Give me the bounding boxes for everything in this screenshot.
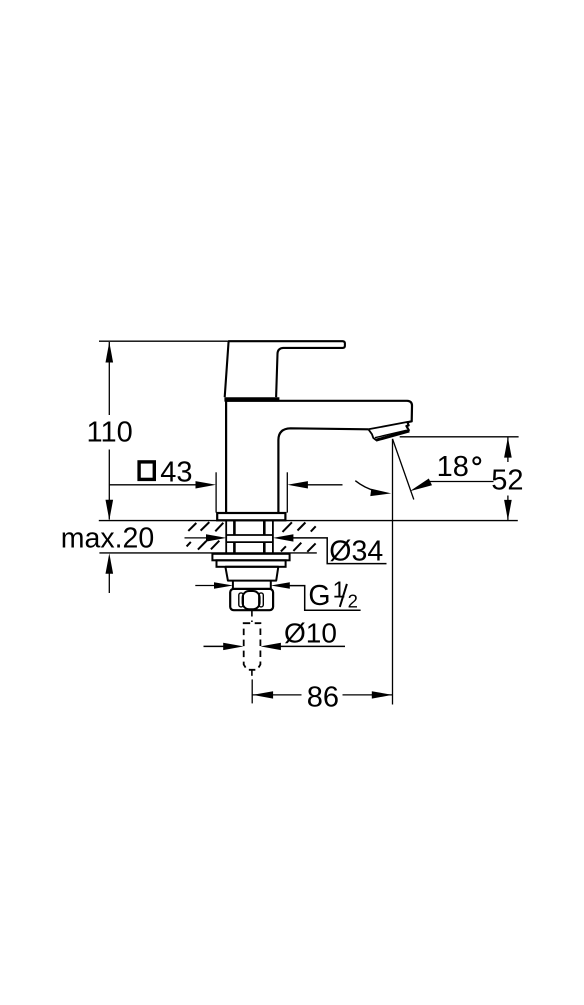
dim 86 right arrow xyxy=(372,691,393,698)
aerator left edge xyxy=(368,429,376,440)
shank through counter left edge xyxy=(225,521,227,553)
shank inner line bottom right xyxy=(263,542,266,553)
dim 52 line upper segment xyxy=(507,438,509,463)
dim 43 right extension line xyxy=(286,472,288,512)
svg-text:1: 1 xyxy=(333,577,346,603)
max.20 arrow shaft xyxy=(108,565,110,593)
dim Ø34 left arrow xyxy=(206,534,226,541)
dim 43 right arrow xyxy=(287,481,308,488)
counter top line xyxy=(99,520,518,522)
aerator bottom thick line xyxy=(376,431,409,440)
washer plate A xyxy=(212,554,289,561)
max.20 arrow up below counter xyxy=(106,553,114,574)
dim 52 arrow up xyxy=(504,437,512,457)
spout height extension line xyxy=(400,436,519,438)
shank through counter right edge xyxy=(272,521,274,553)
dim 43 left extension line xyxy=(215,472,217,512)
shank band upper line xyxy=(226,534,273,536)
dim 43 right line xyxy=(305,484,343,486)
hex nut center facet xyxy=(243,591,260,609)
hex nut outline xyxy=(230,589,273,610)
square symbol for 43 xyxy=(139,462,154,480)
dim 110 arrow up xyxy=(106,342,114,363)
aerator inner line xyxy=(375,430,407,438)
G 1/2 left arrow xyxy=(214,582,233,589)
shank below cone left edge xyxy=(232,581,234,589)
dim 18 leader line xyxy=(428,481,494,483)
dim Ø10 left line xyxy=(204,645,227,647)
dim Ø10 right line xyxy=(278,645,345,647)
svg-text:Ø34: Ø34 xyxy=(329,535,383,567)
dim 110 arrow down xyxy=(106,500,114,521)
svg-text:18: 18 xyxy=(437,451,469,483)
dim 110 line lower segment xyxy=(108,450,110,520)
dim Ø34 leader line xyxy=(291,538,387,564)
dim Ø10 left arrow xyxy=(223,643,243,650)
G 1/2 right arrow xyxy=(271,582,290,589)
dim Ø34 left line xyxy=(185,537,210,539)
aerator top slanted line xyxy=(368,422,407,429)
shank below cone right edge xyxy=(270,581,272,589)
shank band lower line xyxy=(226,541,273,543)
dim 52 arrow down xyxy=(504,500,512,520)
svg-text:86: 86 xyxy=(307,682,339,714)
dim 43 left line xyxy=(109,484,198,486)
dim 86 left arrow xyxy=(253,691,274,698)
svg-text:52: 52 xyxy=(491,465,523,497)
counter hatch left block xyxy=(187,522,224,550)
lever body outline xyxy=(225,341,345,397)
G 1/2 leader line xyxy=(288,586,361,611)
svg-text:Ø10: Ø10 xyxy=(284,617,337,648)
cone washer xyxy=(225,567,278,581)
dim Ø34 right arrow xyxy=(273,534,293,541)
hex nut left facet strip xyxy=(239,593,244,607)
base plinth xyxy=(217,513,285,520)
dim Ø10 right arrow xyxy=(261,643,281,650)
dashed hose outline xyxy=(244,623,261,670)
G 1/2 left arrow line xyxy=(195,585,216,587)
lever base thick bar xyxy=(224,397,279,401)
shank inner line top right xyxy=(263,521,266,535)
washer plate B xyxy=(217,560,286,567)
fraction slash xyxy=(340,584,347,607)
dim 86 line right segment xyxy=(343,694,393,696)
dim 86 left extension tick xyxy=(251,679,253,703)
svg-text:43: 43 xyxy=(160,456,192,488)
svg-text:G: G xyxy=(308,580,330,612)
stream vertical reference line xyxy=(392,439,394,705)
svg-text:2: 2 xyxy=(348,591,358,612)
svg-text:max.20: max.20 xyxy=(61,523,154,555)
dim 18 leader arrow xyxy=(410,479,432,492)
faucet body and spout outline xyxy=(226,401,412,513)
shank inner line top left xyxy=(233,521,236,535)
dim 110 line upper segment xyxy=(108,342,110,415)
svg-text:110: 110 xyxy=(87,417,133,449)
stream 18 degree slanted line xyxy=(393,439,414,500)
dim 86 line left segment xyxy=(252,694,301,696)
lever top extension line xyxy=(99,340,228,342)
angle arc xyxy=(355,481,376,492)
center dashed line below hose xyxy=(251,670,253,679)
angle arc arrow xyxy=(370,489,391,496)
hex nut right facet strip xyxy=(259,593,264,607)
counter bottom line xyxy=(99,552,316,554)
shank inner line bottom left xyxy=(233,542,236,553)
counter hatch right block xyxy=(281,522,316,552)
center dashed line below nut xyxy=(251,611,253,623)
dim 43 left arrow xyxy=(196,481,217,488)
dim 52 line lower segment xyxy=(507,496,509,520)
